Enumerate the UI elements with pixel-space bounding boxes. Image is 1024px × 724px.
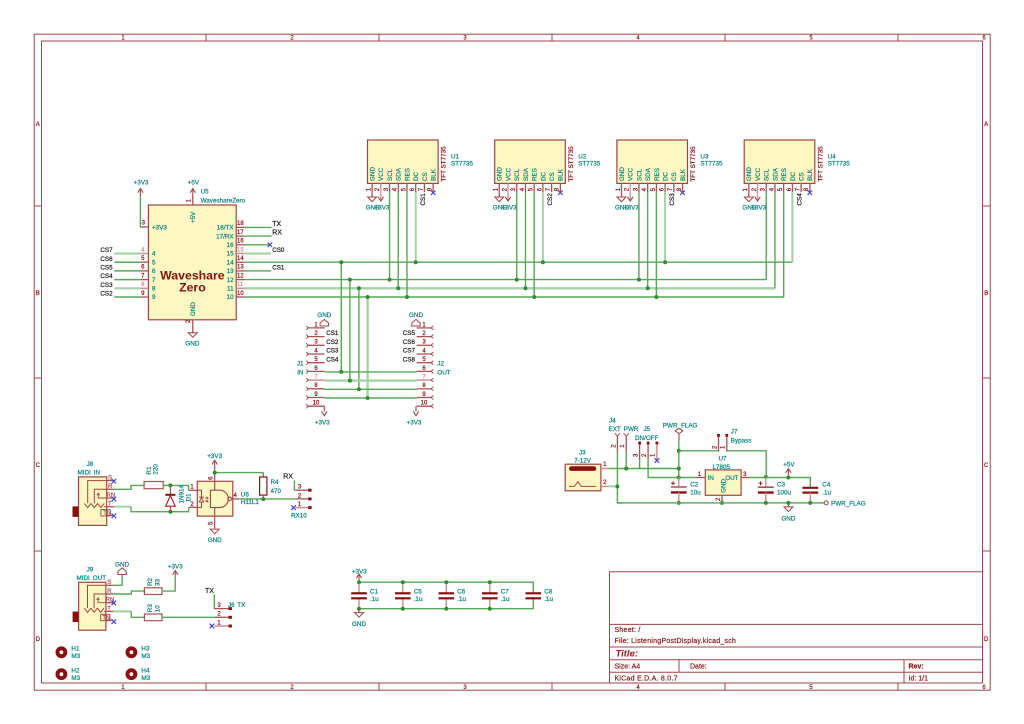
svg-text:GND: GND	[185, 341, 199, 348]
svg-text:J9: J9	[87, 567, 94, 574]
svg-text:Bypass: Bypass	[731, 437, 752, 444]
junction U6 +3V3	[213, 471, 217, 475]
svg-text:16: 16	[227, 242, 235, 249]
svg-text:16: 16	[237, 239, 244, 245]
svg-text:CS5: CS5	[403, 330, 416, 337]
U5 pin 1 (+5V)	[186, 197, 197, 224]
capacitor C6 .1u	[439, 582, 467, 609]
optocoupler U6 H11L1	[189, 473, 260, 529]
wire bypass J7 left	[679, 450, 719, 453]
wire U3 SDA drop	[647, 192, 649, 288]
junction GND rail U7	[720, 501, 724, 505]
svg-text:J8: J8	[87, 461, 94, 468]
no-connect X (J8 RN)	[112, 497, 117, 502]
svg-text:CS2: CS2	[100, 291, 113, 298]
net label CS4 (U4 pin7)	[797, 193, 804, 206]
power +3V3 (U1 pin2)	[375, 192, 390, 211]
power +3V3 (U2 pin2)	[502, 192, 517, 211]
U5 pin 3 (+3V3)	[140, 221, 167, 232]
svg-text:DN/OFF: DN/OFF	[635, 435, 659, 442]
svg-text:Sheet: /: Sheet: /	[615, 627, 641, 634]
wire DC to J1 pin6	[340, 262, 342, 372]
svg-text:BLK: BLK	[807, 168, 814, 181]
junction D1 top	[168, 483, 172, 487]
svg-text:ST7735: ST7735	[578, 161, 601, 168]
svg-text:+3V3: +3V3	[207, 453, 222, 460]
svg-text:GND: GND	[208, 537, 222, 544]
svg-text:CS1: CS1	[272, 265, 285, 272]
svg-text:TFT ST7735: TFT ST7735	[817, 146, 824, 182]
connector J1 (IN)	[297, 322, 325, 408]
svg-text:U5: U5	[201, 189, 210, 196]
svg-text:R3: R3	[147, 604, 154, 613]
svg-text:J6: J6	[228, 602, 235, 609]
svg-text:CS3: CS3	[100, 282, 113, 289]
wire J1-J2 row6	[325, 371, 417, 373]
svg-text:File: ListeningPostDisplay.kic: File: ListeningPostDisplay.kicad_sch	[615, 638, 737, 645]
svg-text:DC: DC	[540, 171, 547, 181]
svg-text:J3: J3	[579, 449, 586, 456]
wire U4 SDA drop	[774, 192, 776, 288]
svg-text:CS4: CS4	[797, 193, 804, 206]
wire SDA bus row (highlighted)	[245, 287, 775, 289]
svg-text:220: 220	[153, 464, 160, 475]
ground GND (U4 pin1)	[742, 192, 756, 211]
svg-text:CS3: CS3	[326, 348, 339, 355]
wire R2 to +3V3	[162, 575, 175, 591]
svg-text:470: 470	[271, 488, 282, 495]
connector J5 ON/OFF	[633, 426, 658, 460]
power +5V (U5)	[188, 180, 200, 197]
U5 pin 12	[227, 273, 245, 283]
wire U3 RES drop	[655, 192, 657, 297]
wire J9.T to R3	[113, 611, 144, 617]
connector J2 (OUT)	[417, 322, 451, 408]
svg-text:D: D	[36, 637, 41, 643]
connector J3 barrel jack 7-12V	[565, 449, 609, 491]
power +3V3 (R2)	[168, 563, 183, 575]
svg-text:U6: U6	[241, 491, 250, 498]
ground GND (U2 pin1)	[493, 192, 507, 211]
junction C3/GND	[764, 501, 768, 505]
svg-text:RX10: RX10	[291, 512, 307, 519]
svg-text:TFT ST7735: TFT ST7735	[441, 146, 448, 182]
resistor R1	[144, 464, 163, 489]
wire U3 DC drop	[664, 192, 666, 262]
svg-text:GND: GND	[370, 167, 377, 181]
wire PWR_FLAG riser	[678, 440, 680, 483]
U5 pin 5 with net label CS6	[100, 256, 156, 267]
svg-text:Title:: Title:	[616, 649, 639, 660]
wire CS5	[114, 270, 140, 272]
svg-text:+3V3: +3V3	[751, 204, 766, 211]
resistor R3 10	[144, 604, 162, 621]
svg-text:GND: GND	[721, 478, 728, 492]
junction J4.1	[624, 467, 628, 471]
svg-text:CS: CS	[799, 172, 806, 181]
svg-text:TX: TX	[272, 221, 281, 228]
connector J6 TX header	[214, 602, 246, 628]
wire U1 DC drop	[415, 192, 417, 262]
svg-text:CS2: CS2	[547, 193, 554, 206]
U5 pin 6 with net label CS5	[100, 265, 156, 276]
U5 pin 13	[227, 265, 245, 275]
svg-text:GND: GND	[497, 167, 504, 181]
svg-text:17/RX: 17/RX	[216, 233, 234, 240]
wire OUT rail	[749, 478, 810, 488]
mounting hole H1 M3	[56, 646, 81, 660]
svg-text:J4: J4	[609, 418, 616, 425]
svg-text:+3V3: +3V3	[352, 568, 367, 575]
svg-text:DC: DC	[663, 171, 670, 181]
wire U2 DC drop	[542, 192, 544, 262]
svg-text:7: 7	[152, 277, 156, 284]
wire IN rail	[679, 477, 696, 479]
svg-text:SDA: SDA	[396, 167, 403, 181]
svg-text:Id: 1/1: Id: 1/1	[909, 675, 929, 682]
svg-text:BLK: BLK	[680, 168, 687, 181]
U5 pin 4 with net label CS7	[100, 247, 156, 258]
svg-text:10: 10	[313, 401, 320, 407]
TFT display U4 ST7735 body	[744, 140, 850, 183]
no-connect X (U3 pin8)	[680, 190, 685, 195]
svg-text:H4: H4	[141, 667, 150, 674]
svg-text:A: A	[36, 122, 40, 128]
svg-text:18: 18	[237, 221, 244, 227]
diode D1 1N914	[165, 484, 192, 511]
svg-text:CS7: CS7	[100, 247, 113, 254]
svg-text:MIDI OUT: MIDI OUT	[77, 575, 107, 582]
svg-text:VCC: VCC	[755, 167, 762, 181]
svg-text:SDA: SDA	[772, 167, 779, 181]
svg-text:ST7735: ST7735	[700, 161, 723, 168]
U5 pin 7 with net label CS4	[100, 273, 156, 284]
wire U2 RES drop	[533, 192, 535, 297]
svg-text:J7: J7	[731, 429, 738, 436]
wire CS6	[114, 261, 140, 263]
svg-text:SCL: SCL	[514, 168, 521, 181]
svg-text:CS0: CS0	[272, 247, 285, 254]
svg-text:SCL: SCL	[636, 168, 643, 181]
svg-text:GND: GND	[781, 515, 795, 522]
svg-text:+3V3: +3V3	[168, 563, 183, 570]
junction D1 bottom	[168, 510, 172, 514]
power +3V3 (J1 pin10)	[315, 406, 330, 426]
U5 pin 14	[227, 256, 245, 266]
svg-text:H2: H2	[71, 667, 80, 674]
svg-text:CS4: CS4	[100, 273, 113, 280]
svg-text:TFT ST7735: TFT ST7735	[690, 146, 697, 182]
svg-text:13: 13	[227, 268, 235, 275]
svg-text:SCL: SCL	[764, 168, 771, 181]
svg-text:17: 17	[237, 230, 244, 236]
svg-text:J5: J5	[644, 426, 651, 433]
svg-text:RES: RES	[532, 168, 539, 181]
svg-text:10: 10	[421, 401, 428, 407]
svg-text:SCL: SCL	[387, 168, 394, 181]
U5 pin 11	[227, 282, 245, 292]
svg-text:7-12V: 7-12V	[574, 458, 592, 465]
svg-text:+5V: +5V	[188, 180, 200, 187]
svg-text:+3V3: +3V3	[152, 224, 167, 231]
svg-text:CS6: CS6	[100, 256, 113, 263]
svg-text:D: D	[984, 637, 989, 643]
svg-text:C6: C6	[457, 589, 466, 596]
svg-text:12: 12	[227, 277, 235, 284]
capacitor C8 .1u	[526, 589, 554, 604]
svg-text:.1u: .1u	[822, 489, 831, 496]
svg-text:+3V3: +3V3	[407, 419, 422, 426]
svg-text:CS: CS	[422, 172, 429, 181]
wire GND rail	[617, 502, 824, 504]
connector J7 Bypass	[712, 429, 751, 452]
svg-text:PWR_FLAG: PWR_FLAG	[663, 422, 698, 429]
svg-text:14: 14	[237, 256, 244, 262]
svg-text:C5: C5	[414, 589, 423, 596]
U5 pin 9 with net label CS2	[100, 291, 156, 302]
capacitor C7 .1u	[482, 582, 510, 609]
wire RES to J1 pin9 (highlighted)	[366, 297, 368, 398]
ground GND (U1 pin1)	[366, 192, 380, 211]
capacitor C2 10u	[671, 478, 701, 503]
U4 pins 1-8	[743, 167, 814, 193]
wire J1-J2 row8	[325, 388, 417, 390]
svg-text:Rev:: Rev:	[909, 663, 924, 670]
svg-text:B: B	[984, 291, 988, 297]
no-connect X (J10 pin1)	[291, 505, 296, 510]
wire U4 DC drop	[791, 192, 793, 262]
no-connect X (J8 S)	[112, 479, 117, 484]
wire U2 SDA drop	[524, 192, 526, 288]
svg-text:.1u: .1u	[544, 596, 553, 603]
svg-text:CS5: CS5	[100, 265, 113, 272]
junction dots on bus rows at J1 risers	[339, 260, 369, 299]
svg-text:10: 10	[154, 605, 161, 613]
wire DC bus row	[245, 261, 793, 263]
svg-text:VCC: VCC	[378, 167, 385, 181]
svg-text:ST7735: ST7735	[451, 161, 474, 168]
svg-text:.1u: .1u	[501, 596, 510, 603]
wire RES bus row	[245, 296, 784, 298]
wire J5.2 to regulator input	[648, 460, 679, 478]
svg-text:KiCad E.D.A. 8.0.7: KiCad E.D.A. 8.0.7	[615, 675, 678, 682]
svg-text:IN: IN	[708, 475, 715, 482]
svg-text:SDA: SDA	[523, 167, 530, 181]
mounting hole H4 M3	[125, 667, 150, 681]
svg-text:Date:: Date:	[690, 663, 707, 670]
svg-text:A: A	[984, 122, 988, 128]
resistor R4 470	[260, 473, 282, 500]
svg-text:10u: 10u	[690, 489, 701, 496]
no-connect X (J6 pin1)	[210, 624, 215, 629]
power +3V3 (J2 pin10)	[407, 406, 422, 426]
junction riser/rail	[677, 467, 681, 471]
junction R4 bottom	[261, 497, 265, 501]
wire J4.1 drop	[625, 451, 627, 468]
wire J3.1 power rail	[609, 459, 640, 468]
ground GND (U6)	[208, 529, 222, 544]
wire cap bank +3V3 rail	[359, 582, 533, 593]
U5 pin 15	[227, 247, 245, 257]
svg-text:CS4: CS4	[326, 356, 339, 363]
svg-text:IN: IN	[297, 369, 304, 376]
svg-text:C1: C1	[370, 589, 379, 596]
wire J8.R to R1	[114, 485, 144, 489]
wire power rail to PWR_FLAG riser	[640, 468, 679, 470]
svg-text:5: 5	[152, 259, 156, 266]
junction dots U3 on bus rows	[637, 260, 667, 299]
wire SCL bus row	[245, 279, 767, 281]
svg-text:4: 4	[152, 251, 156, 258]
svg-text:TX: TX	[237, 602, 246, 609]
no-connect X (J5 pin1)	[655, 458, 660, 463]
wire J1-J2 row9	[325, 397, 417, 399]
svg-text:CS2: CS2	[326, 339, 339, 346]
svg-text:10: 10	[237, 291, 244, 297]
svg-text:TX: TX	[205, 588, 214, 595]
mounting hole H3 M3	[125, 646, 150, 660]
svg-text:CS3: CS3	[669, 193, 676, 206]
svg-text:ST7735: ST7735	[828, 161, 851, 168]
svg-text:18/TX: 18/TX	[217, 225, 235, 232]
wire U1 SDA drop	[397, 192, 399, 288]
net label CS2 (U2 pin7)	[547, 193, 554, 206]
svg-text:H3: H3	[141, 646, 150, 653]
svg-text:+5V: +5V	[783, 461, 795, 468]
junction bypass/OUT	[764, 475, 768, 479]
ground GND (J9 S)	[115, 562, 129, 575]
power +3V3 (U4 pin2)	[751, 192, 766, 211]
wire U6 out to J10 pin2	[239, 498, 295, 500]
svg-text:+3V3: +3V3	[315, 419, 330, 426]
wire R3 to J6 pin2	[162, 616, 214, 618]
capacitor C1 .1u	[351, 582, 379, 609]
svg-text:GND: GND	[317, 312, 331, 319]
svg-text:SDA: SDA	[645, 167, 652, 181]
svg-text:RES: RES	[654, 168, 661, 181]
svg-text:CS8: CS8	[403, 356, 416, 363]
no-connect X (J9 RN)	[112, 601, 117, 606]
wire U1 RES drop	[406, 192, 408, 297]
svg-text:RES: RES	[781, 168, 788, 181]
svg-text:11: 11	[237, 282, 244, 288]
no-connect X (U1 pin8)	[431, 190, 436, 195]
svg-text:RES: RES	[404, 168, 411, 181]
svg-text:11: 11	[227, 286, 234, 293]
net label CS1 (U1 pin7)	[420, 193, 427, 206]
wire CS1	[245, 270, 271, 272]
svg-text:13: 13	[237, 265, 244, 271]
svg-text:C7: C7	[501, 589, 510, 596]
svg-text:GND: GND	[115, 562, 129, 569]
wire bypass J7 right to OUT	[727, 451, 766, 477]
svg-text:BLK: BLK	[558, 168, 565, 181]
ground GND (U5)	[185, 333, 199, 348]
svg-text:BLK: BLK	[431, 168, 438, 181]
wire CS7	[114, 252, 140, 254]
junction dots U2 on bus rows	[515, 260, 545, 299]
svg-text:R4: R4	[271, 479, 280, 486]
power +3V3 (cap bank)	[352, 568, 367, 582]
svg-text:+5V: +5V	[190, 211, 197, 223]
svg-text:GND: GND	[746, 167, 753, 181]
no-connect X (U2 pin8)	[558, 190, 563, 195]
svg-text:C8: C8	[544, 589, 553, 596]
svg-text:U2: U2	[578, 154, 587, 161]
svg-text:8: 8	[152, 286, 156, 293]
power +5V	[783, 461, 795, 477]
junction riser/bypass	[677, 449, 681, 453]
net label TX (hanging)	[205, 588, 214, 609]
resistor R2 33	[144, 577, 162, 594]
TFT display U3 ST7735 body	[617, 140, 723, 183]
svg-text:C: C	[36, 463, 41, 469]
svg-text:C: C	[984, 463, 989, 469]
U5 pin 18	[217, 221, 245, 231]
ground GND (J2 pin1)	[409, 312, 423, 326]
svg-text:+3V3: +3V3	[375, 204, 390, 211]
wire U1 SCL drop	[389, 192, 391, 279]
net label CS3 (U3 pin7)	[669, 193, 676, 206]
svg-text:CS6: CS6	[403, 339, 416, 346]
wire J9.R to R2	[113, 591, 144, 594]
wire TX	[245, 226, 272, 228]
U1 pins 1-8	[367, 167, 438, 193]
svg-text:GND: GND	[409, 312, 423, 319]
TFT display U1 ST7735 body	[368, 140, 474, 183]
junction GND stub	[786, 501, 790, 505]
title block	[610, 572, 983, 683]
power flag PWR_FLAG (output)	[824, 500, 866, 507]
wire CS4	[114, 279, 140, 281]
svg-text:CS1: CS1	[420, 193, 427, 206]
svg-text:U4: U4	[828, 154, 837, 161]
junction riser/IN	[677, 476, 681, 480]
wire +3V3 to R4	[215, 472, 264, 474]
connector J10 RX header	[291, 485, 312, 520]
no-connect X (J8 TN)	[112, 514, 117, 519]
svg-text:DC: DC	[413, 171, 420, 181]
svg-text:+3V3: +3V3	[502, 204, 517, 211]
connector J8 MIDI IN jack	[73, 461, 116, 525]
svg-text:OUT: OUT	[437, 369, 450, 376]
wire J9.S to GND	[113, 575, 122, 586]
svg-text:6: 6	[152, 268, 156, 275]
svg-text:12: 12	[237, 273, 244, 279]
svg-text:C2: C2	[690, 481, 699, 488]
svg-text:9: 9	[152, 294, 156, 301]
svg-text:33: 33	[154, 578, 161, 586]
wire pin16 no-connect	[245, 244, 270, 246]
svg-text:EXT PWR: EXT PWR	[609, 426, 639, 433]
svg-text:M3: M3	[71, 675, 80, 682]
power +3V3 (U3 pin2)	[624, 192, 639, 211]
no-connect X (U5 pin16)	[268, 243, 273, 248]
ground GND (cap bank)	[352, 609, 366, 628]
U5 pin 17	[216, 230, 245, 240]
svg-text:U3: U3	[700, 154, 709, 161]
junction +5V/OUT	[786, 476, 790, 480]
junction C2/GND	[677, 501, 681, 505]
wire U4 SCL drop	[765, 192, 767, 279]
svg-text:M3: M3	[141, 675, 150, 682]
svg-text:J2: J2	[437, 361, 444, 368]
svg-text:.1u: .1u	[457, 596, 466, 603]
wire SCL to J1 pin7	[349, 280, 351, 381]
svg-text:TFT ST7735: TFT ST7735	[568, 146, 575, 182]
svg-text:CS1: CS1	[326, 330, 339, 337]
svg-text:100u: 100u	[777, 489, 792, 496]
